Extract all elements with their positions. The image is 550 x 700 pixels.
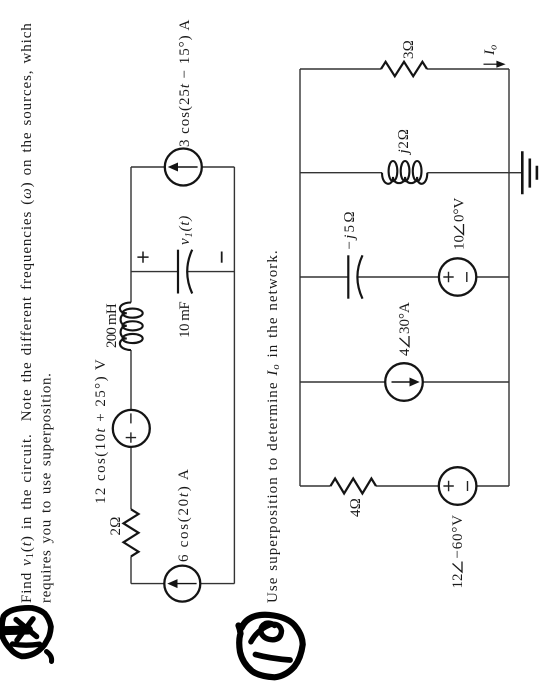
wire: circuit-2 left branch xyxy=(300,485,509,487)
vsource2 plus sign xyxy=(443,481,453,491)
inductor j2ohm xyxy=(389,161,398,181)
vsource2 minus sign xyxy=(467,481,469,491)
inductor 200mH xyxy=(123,334,143,343)
isource3 down arrow xyxy=(392,379,419,386)
handwritten mark 1 ring xyxy=(2,608,51,656)
wire: circuit-1 capacitor branch xyxy=(131,271,234,273)
svg-text:3Ω: 3Ω xyxy=(401,40,417,59)
wire: circuit-2 right branch xyxy=(300,68,509,70)
svg-text:4Ω: 4Ω xyxy=(348,498,364,517)
handwritten mark 1 comma xyxy=(47,652,52,662)
wire: circuit-1 bottom rail xyxy=(233,167,235,584)
resistor R 2ohm xyxy=(124,509,139,556)
svg-text:0°V: 0°V xyxy=(452,198,468,222)
wire: circuit-1 right branch xyxy=(131,166,234,168)
svg-text:Io: Io xyxy=(482,45,500,56)
resistor 3ohm xyxy=(381,62,427,76)
label minus of v1 xyxy=(221,252,223,263)
svg-text:30°A: 30°A xyxy=(397,302,413,334)
capacitor -j5ohm top plate xyxy=(347,255,349,298)
svg-text:12 cos(10t + 25°) V: 12 cos(10t + 25°) V xyxy=(93,358,109,504)
isource1 up arrow xyxy=(169,580,197,587)
voltage source 10angle0V circle xyxy=(439,258,476,295)
svg-text:6 cos(20t) A: 6 cos(20t) A xyxy=(176,467,192,562)
capacitor -j5ohm curved plate xyxy=(357,255,362,298)
ground stem xyxy=(509,172,522,174)
handwritten mark 2 inner loop xyxy=(251,623,282,642)
handwritten mark 1 cross stroke b xyxy=(17,619,33,640)
svg-text:Use superposition to determine: Use superposition to determine Io in the… xyxy=(265,249,282,603)
svg-text:2Ω: 2Ω xyxy=(108,516,124,535)
svg-text:−60°V: −60°V xyxy=(450,514,466,558)
current source 4angle30A circle xyxy=(385,363,423,401)
svg-text:200 mH: 200 mH xyxy=(104,303,120,348)
handwritten mark 2 bar xyxy=(256,655,291,661)
svg-text:12: 12 xyxy=(450,574,466,589)
voltage source 12angle-60V circle xyxy=(439,467,477,505)
vsource3 plus sign xyxy=(443,272,453,282)
handwritten mark 1 thick bar xyxy=(5,626,29,636)
isource2 up arrow xyxy=(170,164,198,171)
ground bars xyxy=(522,151,537,194)
handwritten mark 2 ring xyxy=(239,615,303,678)
svg-text:v1(t): v1(t) xyxy=(177,215,195,245)
current source 6cos(20t)A circle xyxy=(164,566,200,602)
svg-text:4: 4 xyxy=(397,348,413,356)
wire: circuit-2 branch 3 xyxy=(300,276,509,278)
svg-text:requires you to use superposit: requires you to use superposition. xyxy=(39,372,55,603)
svg-text:Find v1(t) in the circuit. No: Find v1(t) in the circuit. Note the diff… xyxy=(19,22,36,603)
svg-text:j2Ω: j2Ω xyxy=(396,128,412,155)
wire: circuit-2 branch 4 xyxy=(300,172,509,174)
current source 3cos(25t-15)A circle xyxy=(165,149,202,186)
vsource1 minus sign xyxy=(130,413,132,423)
wire: circuit-2 top rail xyxy=(299,69,301,486)
wire: circuit-1 top rail segments xyxy=(130,167,132,584)
vsource1 plus sign xyxy=(126,432,136,442)
capacitor 10mF curved plate xyxy=(187,250,192,294)
capacitor 10mF top plate xyxy=(177,250,179,294)
svg-text:10 mF: 10 mF xyxy=(177,302,193,338)
voltage source 12cos(10t+25)V circle xyxy=(113,410,150,447)
wire: circuit-2 branch 2 xyxy=(300,381,509,383)
resistor 4ohm xyxy=(331,479,377,494)
label plus of v1 xyxy=(137,252,148,263)
svg-text:3 cos(25t − 15°) A: 3 cos(25t − 15°) A xyxy=(177,19,193,147)
wire: circuit-1 left branch xyxy=(131,583,234,585)
svg-text:−j5Ω: −j5Ω xyxy=(342,209,358,249)
Io arrow xyxy=(484,62,505,67)
handwritten mark 1 swoosh xyxy=(13,644,40,645)
vsource3 minus sign xyxy=(466,272,468,282)
wire: circuit-2 bottom rail xyxy=(508,69,510,486)
svg-text:10: 10 xyxy=(452,235,468,250)
handwritten mark 1 cross stroke a xyxy=(16,620,36,637)
